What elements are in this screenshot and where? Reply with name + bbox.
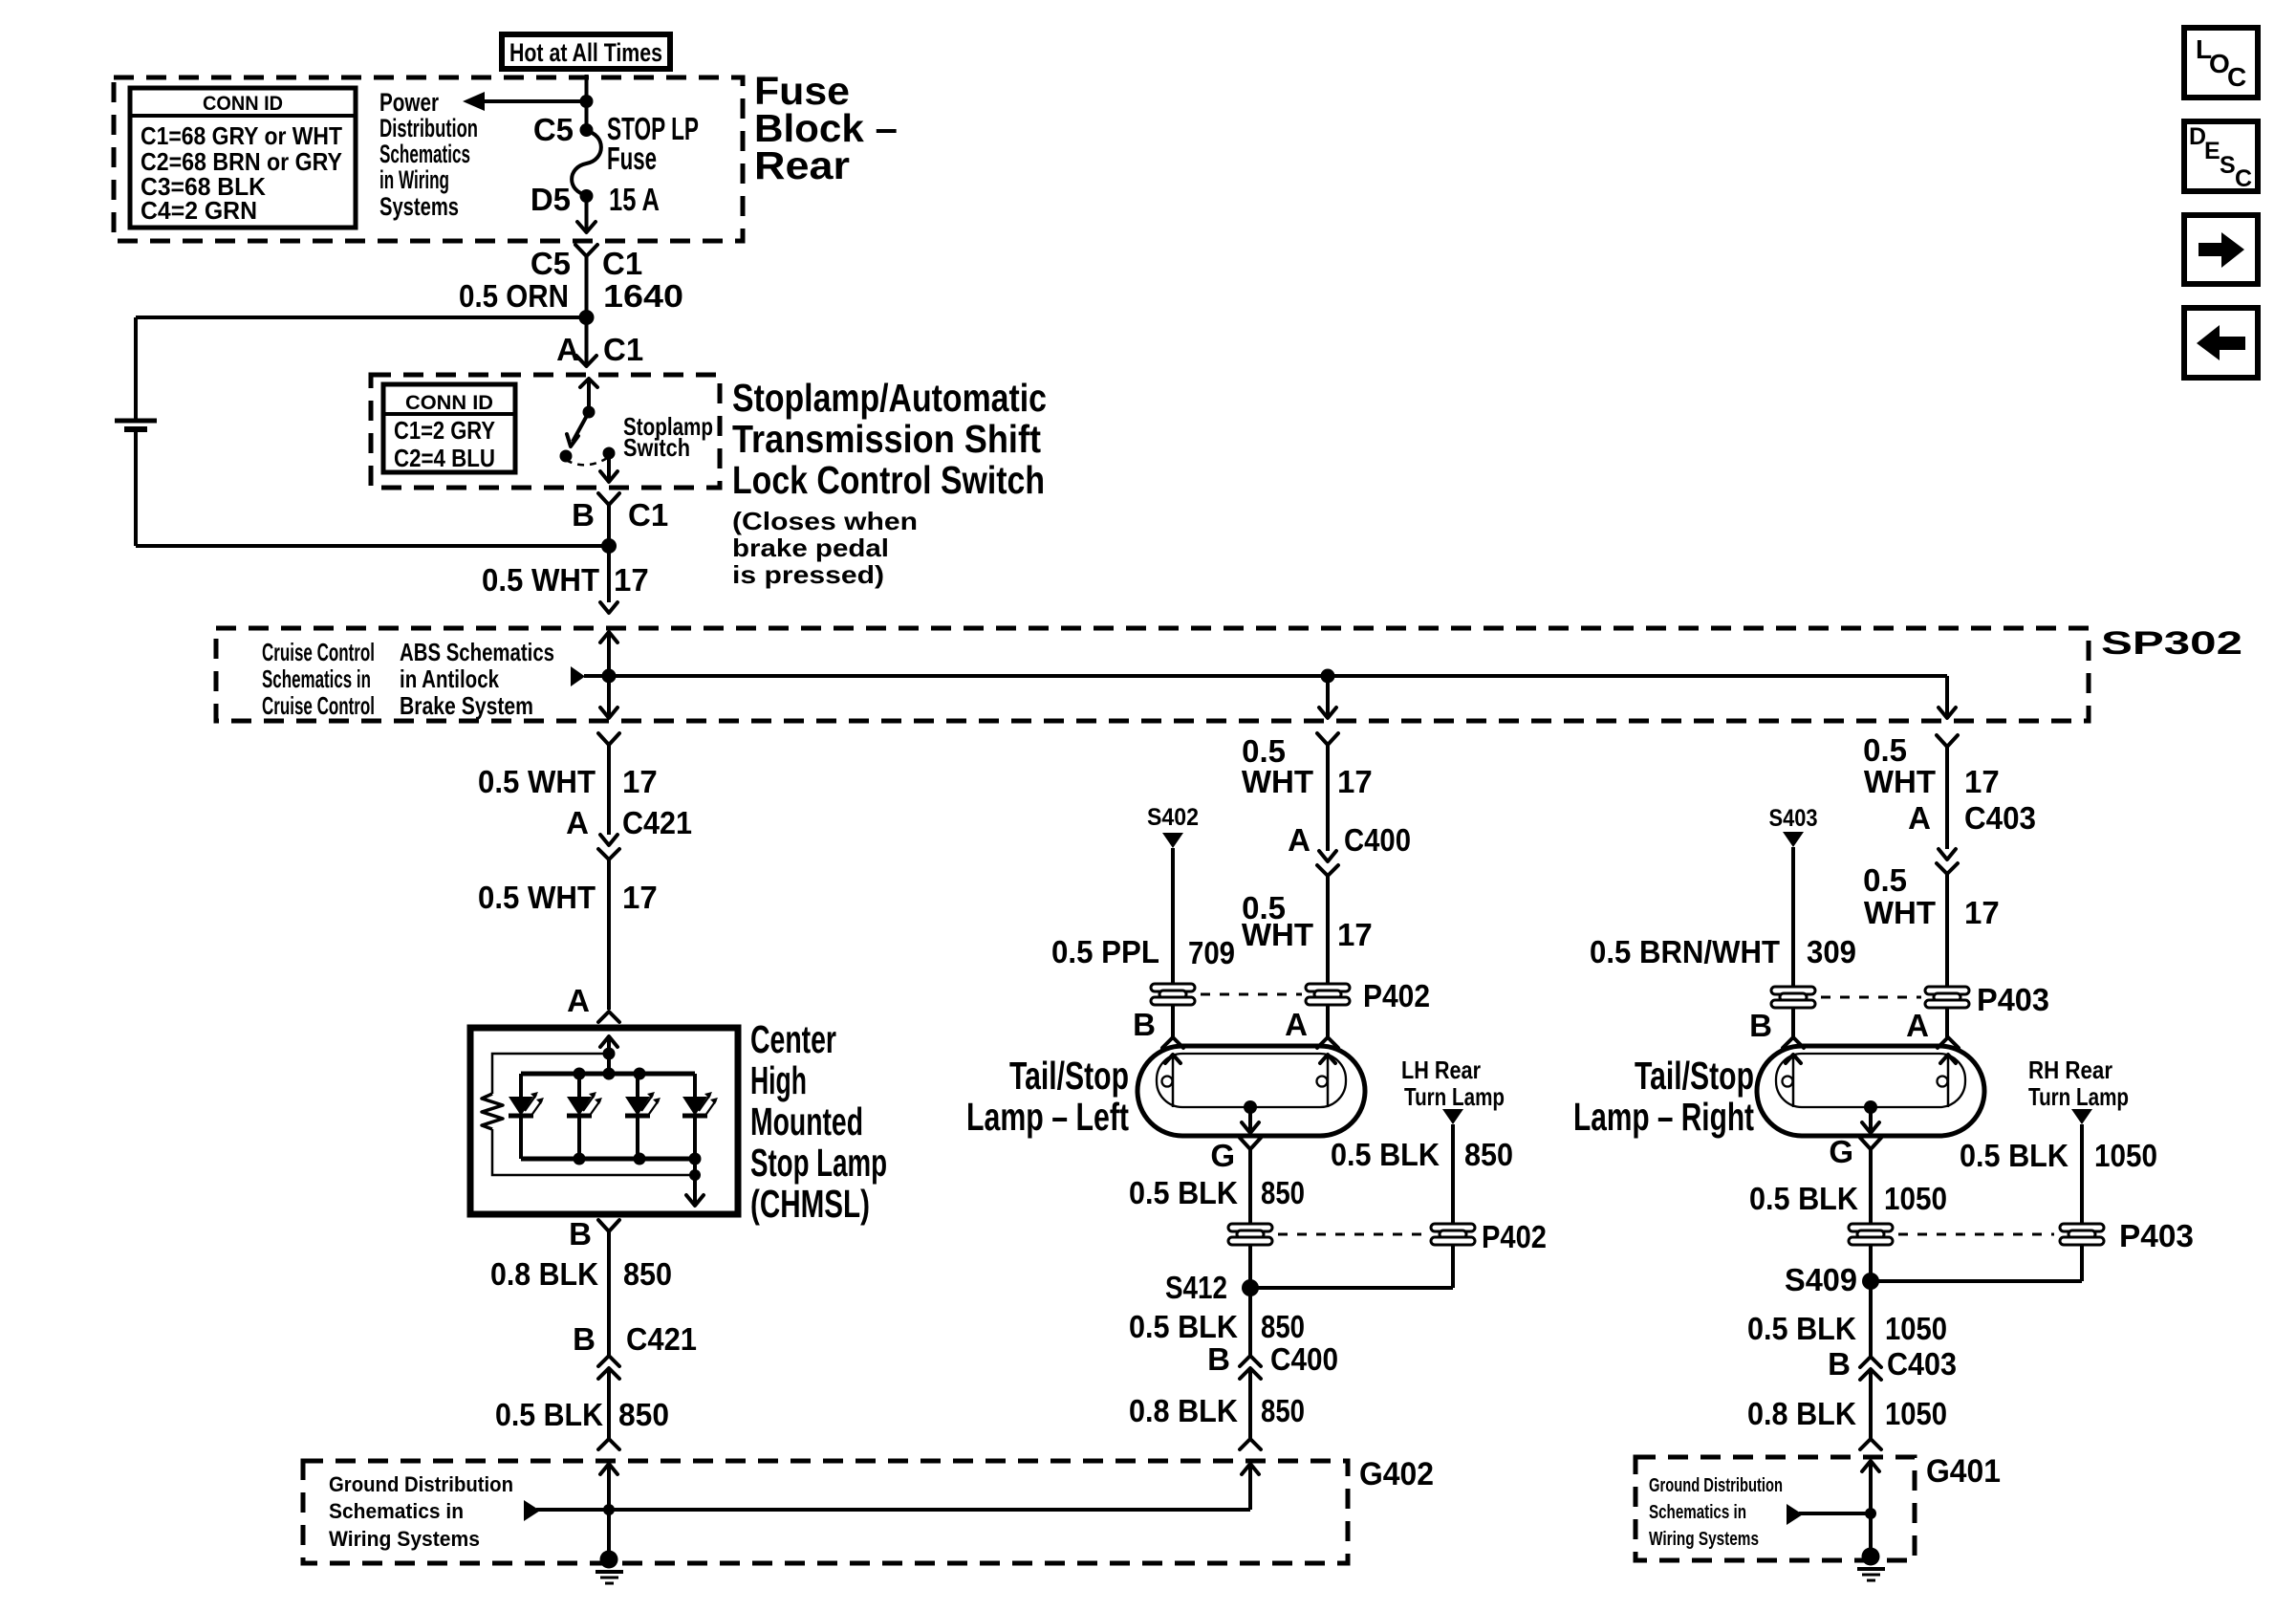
wire 0.8 BLK 1050 to G401	[1869, 1369, 1873, 1439]
LED cathode bus	[521, 1157, 695, 1162]
splice bus wire inside SP302	[571, 666, 1947, 686]
splice riser at 637 with arrows	[600, 631, 617, 718]
dashed grommet link P403 lower	[1898, 1233, 2054, 1236]
LH rear turn lamp feed (triangle)	[1442, 1109, 1463, 1224]
value label 0.5 BLK | 1050	[1749, 1181, 1947, 1216]
wire 0.5 BLK 850 to ground	[607, 1368, 611, 1439]
value label 0.5 PPL | 709	[1051, 934, 1235, 970]
svg-text:C1: C1	[602, 246, 642, 281]
label LH Rear Turn Lamp	[1401, 1056, 1505, 1111]
connector A/C1 arrow + chevron	[576, 356, 596, 366]
svg-text:C1: C1	[628, 497, 668, 533]
wire stubs into right lamp	[1793, 1008, 1947, 1037]
svg-text:17: 17	[1964, 764, 2000, 799]
svg-text:Tail/Stop: Tail/Stop	[1009, 1054, 1129, 1098]
svg-text:A: A	[1908, 800, 1931, 836]
svg-text:17: 17	[1337, 917, 1373, 952]
svg-text:S: S	[2220, 152, 2236, 179]
svg-text:G402: G402	[1359, 1456, 1434, 1492]
pin label B | C1	[572, 497, 668, 533]
left ground riser with up arrow	[600, 1464, 617, 1558]
note Power Distribution Schematics in Wiring Systems	[379, 88, 478, 221]
LED D1	[509, 1074, 544, 1159]
junction dot entry	[603, 1048, 616, 1060]
resistor bypass loop (thin)	[492, 1054, 695, 1175]
svg-text:0.5 WHT: 0.5 WHT	[482, 562, 599, 598]
value label 0.8 BLK | 850	[1129, 1393, 1305, 1428]
connector B chevron below CHMSL	[598, 1220, 619, 1231]
svg-text:C: C	[2235, 165, 2252, 192]
svg-text:is pressed): is pressed)	[732, 560, 884, 589]
wire 0.8 BLK 850	[607, 1231, 611, 1356]
wire: fuse output with arrow to box edge	[577, 196, 596, 232]
svg-text:C5: C5	[533, 112, 574, 147]
svg-text:in Antilock: in Antilock	[400, 664, 499, 693]
value label 0.5 BLK | 850	[495, 1397, 669, 1432]
wire: top leg of cruise-control loop	[136, 316, 587, 319]
junction dot SP302 left	[602, 669, 617, 684]
grommet P402 (main wire)	[1306, 984, 1350, 1005]
svg-text:Power: Power	[379, 88, 439, 117]
svg-text:0.5 PPL: 0.5 PPL	[1051, 934, 1159, 969]
svg-text:0.5 BRN/WHT: 0.5 BRN/WHT	[1590, 934, 1780, 969]
wire 0.5 WHT 17 (right, above C403)	[1945, 747, 1949, 849]
value label 0.5 / WHT | 17	[1863, 862, 2000, 930]
junction node to cruise loop	[579, 310, 595, 325]
CHMSL exit wire with down arrow	[686, 1159, 704, 1206]
svg-text:Stop Lamp: Stop Lamp	[750, 1141, 887, 1185]
dashed grommet link P403	[1821, 996, 1921, 999]
pin label G chevron below lamp	[1240, 1138, 1261, 1149]
wire 0.5 BLK 1050 (right lamp ground)	[1869, 1149, 1873, 1224]
ground symbol G402	[596, 1551, 623, 1584]
chevron at CHMSL pin A	[598, 1012, 619, 1022]
DESC icon box	[2184, 121, 2258, 192]
svg-text:Wiring Systems: Wiring Systems	[1649, 1529, 1759, 1550]
svg-text:0.5: 0.5	[1863, 732, 1907, 768]
svg-text:Systems: Systems	[379, 192, 459, 221]
forward arrow icon box	[2184, 215, 2258, 284]
svg-text:G: G	[1829, 1134, 1853, 1169]
dashed grommet link P402	[1201, 993, 1302, 996]
svg-text:Fuse: Fuse	[607, 141, 657, 176]
value label 0.5 BLK | 850	[1129, 1175, 1305, 1210]
filament (left pin B)	[1162, 1054, 1181, 1107]
svg-text:0.8 BLK: 0.8 BLK	[1747, 1396, 1856, 1431]
SP302 dashed enclosure	[216, 628, 2089, 721]
svg-text:B: B	[1207, 1341, 1230, 1377]
svg-text:Lamp – Right: Lamp – Right	[1573, 1095, 1754, 1139]
svg-text:17: 17	[614, 562, 649, 598]
svg-text:Transmission Shift: Transmission Shift	[732, 417, 1041, 461]
connector B/C1 chevron	[598, 493, 619, 505]
middle branch ground riser into G402	[1242, 1464, 1259, 1510]
splice drop right	[1939, 676, 1956, 718]
svg-text:1050: 1050	[2094, 1138, 2157, 1173]
grommet P403 lower (RH turn lamp wire)	[2060, 1224, 2104, 1245]
splice S402	[1147, 804, 1199, 985]
value label 0.5 BLK | 850 (below S412)	[1129, 1309, 1305, 1344]
svg-text:C403: C403	[1964, 800, 2036, 836]
svg-text:P402: P402	[1363, 978, 1430, 1013]
svg-text:E: E	[2204, 138, 2220, 164]
pin label A | C403	[1908, 800, 2036, 836]
svg-text:WHT: WHT	[1864, 764, 1936, 799]
filament (right pin B)	[1783, 1054, 1802, 1107]
svg-text:1050: 1050	[1885, 1311, 1947, 1346]
battery symbol (voltage source in loop)	[115, 317, 157, 546]
svg-text:Wiring Systems: Wiring Systems	[329, 1527, 480, 1551]
connector C421 arrow + chevron	[598, 835, 619, 860]
wire: arrow to power distribution (left)	[463, 92, 587, 111]
svg-text:Mounted: Mounted	[750, 1099, 863, 1143]
grommet P402 (S402 wire)	[1151, 984, 1195, 1005]
svg-text:C400: C400	[1270, 1341, 1338, 1377]
svg-text:High: High	[750, 1058, 807, 1102]
wire 0.8 BLK 850 to G402	[1248, 1368, 1252, 1439]
svg-text:B: B	[573, 1321, 596, 1357]
LED anode bus	[521, 1072, 695, 1077]
svg-text:Turn Lamp: Turn Lamp	[2028, 1082, 2129, 1111]
svg-text:C1=2 GRY: C1=2 GRY	[394, 416, 495, 445]
svg-text:D5: D5	[531, 182, 571, 217]
fuse block dashed enclosure	[114, 77, 743, 241]
svg-text:C: C	[2227, 62, 2246, 92]
svg-text:C1=68 GRY or WHT: C1=68 GRY or WHT	[141, 121, 342, 150]
pin label A | C421	[566, 805, 692, 840]
grommet P403 lower (right lamp ground wire)	[1849, 1224, 1893, 1245]
value label 0.5 WHT | 17	[482, 562, 649, 598]
svg-text:C403: C403	[1887, 1346, 1957, 1382]
svg-text:LH Rear: LH Rear	[1401, 1056, 1481, 1084]
svg-text:A: A	[1906, 1008, 1929, 1043]
value label 0.8 BLK | 850	[490, 1256, 672, 1292]
value label 0.5 / WHT | 17	[1863, 732, 2000, 799]
svg-text:0.8 BLK: 0.8 BLK	[1129, 1393, 1238, 1428]
svg-text:RH Rear: RH Rear	[2028, 1056, 2112, 1084]
chevrons at right lamp pins	[1783, 1037, 1959, 1048]
pin label C5 | C1	[531, 246, 642, 281]
connector C421 double chevron	[598, 1356, 619, 1379]
svg-text:709: 709	[1188, 935, 1235, 970]
wire RH turn-lamp ground into S409	[1871, 1245, 2082, 1281]
svg-text:G: G	[1210, 1138, 1235, 1173]
LED D2	[567, 1074, 602, 1159]
svg-text:850: 850	[1261, 1175, 1305, 1210]
G401 dashed enclosure	[1635, 1457, 1915, 1560]
label Center High Mounted Stop Lamp (CHMSL)	[750, 1017, 887, 1226]
connector C400 double chevron	[1240, 1356, 1261, 1379]
svg-text:SP302: SP302	[2101, 625, 2242, 662]
svg-text:0.5 WHT: 0.5 WHT	[478, 764, 596, 799]
svg-text:S412: S412	[1165, 1270, 1227, 1305]
svg-text:Lamp – Left: Lamp – Left	[966, 1095, 1129, 1139]
svg-text:Ground Distribution: Ground Distribution	[1649, 1475, 1783, 1496]
label Tail/Stop Lamp - Left	[966, 1054, 1129, 1139]
wire 0.5 ORN 1640	[585, 256, 589, 365]
svg-text:A: A	[1285, 1007, 1308, 1042]
svg-text:P403: P403	[1977, 982, 2049, 1017]
pin label A | C400	[1288, 822, 1411, 858]
svg-text:C4=2 GRN: C4=2 GRN	[141, 196, 257, 225]
chevron below SP302 right	[1937, 735, 1958, 747]
svg-text:brake pedal: brake pedal	[732, 533, 889, 562]
svg-text:0.5 BLK: 0.5 BLK	[1749, 1181, 1858, 1216]
connector C403 double chevron	[1860, 1357, 1881, 1380]
LED D3	[625, 1074, 661, 1159]
pin label B | C421	[573, 1321, 697, 1357]
svg-text:Schematics in: Schematics in	[1649, 1502, 1746, 1523]
svg-text:Distribution: Distribution	[379, 114, 478, 142]
svg-text:P403: P403	[2119, 1218, 2194, 1253]
chevron above G401	[1860, 1439, 1881, 1449]
svg-text:B: B	[1828, 1346, 1851, 1382]
svg-text:S409: S409	[1785, 1262, 1857, 1297]
svg-text:Cruise Control: Cruise Control	[262, 691, 375, 720]
pin label A | C1	[556, 332, 643, 367]
svg-text:CONN ID: CONN ID	[203, 93, 283, 115]
wire turn-lamp ground into S412	[1250, 1245, 1453, 1288]
svg-text:850: 850	[623, 1256, 672, 1292]
svg-text:(Closes when: (Closes when	[732, 507, 918, 535]
note ABS Schematics in Antilock Brake System	[400, 638, 554, 720]
svg-text:B: B	[572, 497, 595, 533]
junction dot SP302 middle	[1321, 669, 1335, 684]
CHMSL entry wire with up arrow	[600, 1036, 617, 1074]
svg-text:Cruise Control: Cruise Control	[262, 638, 375, 666]
chevron below SP302 middle	[1317, 733, 1338, 745]
svg-text:WHT: WHT	[1242, 917, 1313, 952]
svg-text:Stoplamp/Automatic: Stoplamp/Automatic	[732, 376, 1047, 420]
svg-text:17: 17	[622, 764, 658, 799]
splice drop middle	[1319, 676, 1336, 718]
svg-text:S402: S402	[1147, 804, 1199, 831]
label "Hot at All Times"	[502, 34, 670, 69]
pin G chevron below right lamp	[1860, 1138, 1881, 1149]
fuse STOP LP 15 A	[572, 123, 601, 203]
Tail/Stop Lamp - Right bulb housing	[1757, 1046, 1984, 1136]
junction dot on G401 bus	[1865, 1508, 1876, 1519]
svg-text:0.5 BLK: 0.5 BLK	[495, 1397, 603, 1432]
value label 0.5 WHT | 17	[478, 880, 658, 915]
svg-text:1640: 1640	[603, 278, 683, 314]
wire 0.5 BLK 850 (lamp ground)	[1248, 1149, 1252, 1224]
ground distribution arrow wire (G401)	[1787, 1504, 1871, 1525]
note Ground Distribution Schematics in Wiring Systems	[329, 1472, 513, 1551]
chevrons at lamp pins	[1162, 1037, 1338, 1048]
label Stoplamp/Automatic Transmission Shift Lock Control Switch	[732, 376, 1047, 589]
label RH Rear Turn Lamp	[2028, 1056, 2129, 1111]
svg-text:in Wiring: in Wiring	[379, 165, 449, 194]
svg-text:A: A	[567, 983, 590, 1018]
grommet P402 lower (turn lamp wire)	[1431, 1224, 1475, 1245]
label Tail/Stop Lamp - Right	[1573, 1054, 1754, 1139]
wire 0.5 WHT 17 (middle, below C400)	[1326, 876, 1330, 985]
value label 0.5 BLK | 1050 (turn lamp)	[1960, 1138, 2157, 1173]
junction at fuse feed	[580, 95, 594, 108]
svg-text:Rear: Rear	[754, 143, 850, 187]
svg-text:B: B	[1133, 1007, 1156, 1042]
svg-text:C2=4 BLU: C2=4 BLU	[394, 444, 495, 472]
chevron above G402	[598, 1439, 619, 1449]
svg-text:WHT: WHT	[1242, 764, 1313, 799]
svg-text:A: A	[556, 332, 579, 367]
svg-text:0.5 BLK: 0.5 BLK	[1960, 1138, 2069, 1173]
svg-text:Brake System: Brake System	[400, 691, 533, 720]
svg-text:17: 17	[1964, 895, 2000, 930]
wire 0.5 WHT 17 (middle, above C400)	[1326, 745, 1330, 851]
right ground riser with up arrow	[1862, 1461, 1879, 1556]
connector C400 arrow + chevron	[1317, 851, 1338, 876]
value label 0.5 BLK | 1050 (below S409)	[1747, 1311, 1947, 1346]
svg-text:A: A	[1288, 822, 1310, 858]
junction dot on ground bus	[603, 1504, 615, 1515]
svg-text:B: B	[1749, 1008, 1772, 1043]
svg-text:Schematics in: Schematics in	[262, 664, 371, 693]
splice S409	[1785, 1262, 1879, 1297]
pin label B | C400	[1207, 1341, 1338, 1377]
junction dots on cathode bus	[574, 1153, 586, 1165]
svg-text:0.5 BLK: 0.5 BLK	[1129, 1175, 1238, 1210]
note Cruise Control Schematics in Cruise Control	[262, 638, 375, 720]
wire arrow into SP302	[600, 602, 617, 613]
svg-text:C5: C5	[531, 246, 571, 281]
svg-text:S403: S403	[1769, 805, 1818, 832]
svg-text:Ground Distribution: Ground Distribution	[329, 1472, 513, 1496]
value label 0.5 / WHT | 17	[1242, 733, 1373, 799]
right lamp common node	[1862, 1100, 1879, 1133]
lamp common node	[1242, 1100, 1259, 1133]
svg-text:0.5 BLK: 0.5 BLK	[1331, 1137, 1440, 1172]
grommet P403 (S403 wire)	[1771, 987, 1815, 1008]
svg-text:C421: C421	[622, 805, 692, 840]
svg-text:B: B	[569, 1216, 592, 1252]
ground symbol G401	[1857, 1548, 1885, 1581]
G402 dashed enclosure	[303, 1461, 1348, 1563]
svg-text:G401: G401	[1926, 1453, 2001, 1490]
svg-text:850: 850	[1261, 1309, 1305, 1344]
note Ground Distribution Schematics in Wiring Systems (G401)	[1649, 1475, 1783, 1550]
value label 0.5 BRN/WHT | 309	[1590, 934, 1856, 969]
wire: feed from Hot at All Times into fuse	[585, 75, 589, 130]
switch dashed enclosure	[371, 375, 720, 488]
svg-text:CONN ID: CONN ID	[405, 392, 493, 414]
CONN ID table (fuse block)	[130, 88, 356, 228]
splice S412	[1165, 1270, 1259, 1305]
svg-text:WHT: WHT	[1864, 895, 1936, 930]
svg-text:C421: C421	[626, 1321, 697, 1357]
wire 0.5 WHT 17 below switch	[607, 505, 611, 602]
svg-text:1050: 1050	[1884, 1181, 1947, 1216]
ground distribution arrow wire	[524, 1500, 1250, 1521]
filament (right pin A)	[1938, 1054, 1957, 1107]
svg-text:0.8 BLK: 0.8 BLK	[490, 1256, 598, 1292]
wire from grommet to splice S409	[1869, 1245, 1873, 1356]
wire: bottom leg of cruise-control loop	[136, 544, 609, 548]
value label STOP LP Fuse 15 A	[607, 111, 699, 217]
svg-text:Hot at All Times: Hot at All Times	[509, 38, 662, 67]
svg-text:1050: 1050	[1885, 1396, 1947, 1431]
label Stoplamp Switch	[623, 412, 713, 462]
svg-text:0.5 WHT: 0.5 WHT	[478, 880, 596, 915]
svg-text:Turn Lamp: Turn Lamp	[1404, 1082, 1505, 1111]
junction node to cruise loop bottom	[601, 538, 617, 554]
grommet P402 lower (lamp ground wire)	[1228, 1224, 1272, 1245]
wire 0.5 WHT 17 (left, above C421)	[607, 745, 611, 835]
svg-text:Schematics: Schematics	[379, 140, 470, 168]
svg-text:17: 17	[1337, 764, 1373, 799]
chevron above G402 (middle)	[1240, 1439, 1261, 1449]
svg-text:A: A	[566, 805, 589, 840]
wire from grommet to splice S412	[1248, 1245, 1252, 1356]
svg-text:850: 850	[1261, 1393, 1305, 1428]
label Fuse Block - Rear	[754, 69, 898, 187]
svg-text:17: 17	[622, 880, 658, 915]
CHMSL housing box	[470, 1028, 738, 1214]
value label 0.5 WHT | 17	[478, 764, 658, 799]
svg-text:(CHMSL): (CHMSL)	[750, 1182, 870, 1226]
value label 0.5 ORN | 1640	[459, 278, 683, 314]
wire stubs into lamp	[1173, 1005, 1328, 1037]
svg-text:Lock Control Switch: Lock Control Switch	[732, 458, 1045, 502]
svg-text:Schematics in: Schematics in	[329, 1499, 464, 1523]
svg-text:0.5: 0.5	[1863, 862, 1907, 898]
LOC icon box	[2184, 28, 2258, 98]
wire 0.5 WHT 17 (left, below C421)	[607, 860, 611, 1010]
svg-text:P402: P402	[1482, 1219, 1547, 1254]
pin label B | C403	[1828, 1346, 1957, 1382]
CONN ID table (switch)	[383, 384, 515, 472]
value label 0.8 BLK | 1050	[1747, 1396, 1947, 1431]
stoplamp switch symbol	[560, 379, 618, 482]
junction dots on anode bus	[574, 1068, 586, 1080]
back arrow icon box	[2184, 308, 2258, 378]
splice S403	[1769, 805, 1818, 988]
grommet P403 (main wire)	[1925, 987, 1969, 1008]
svg-text:Tail/Stop: Tail/Stop	[1635, 1054, 1754, 1098]
svg-text:ABS Schematics: ABS Schematics	[400, 638, 554, 666]
connector C5/C1 chevron	[575, 245, 597, 256]
svg-text:850: 850	[618, 1397, 669, 1432]
filament (left pin A)	[1317, 1054, 1336, 1107]
Tail/Stop Lamp - Left bulb housing	[1137, 1046, 1365, 1136]
wire 0.5 WHT 17 (right, below C403)	[1945, 874, 1949, 988]
value label 0.5 BLK | 850 (turn lamp)	[1331, 1137, 1513, 1172]
LED D4	[682, 1074, 718, 1159]
svg-text:Switch: Switch	[623, 433, 690, 462]
junction dot bypass/exit	[689, 1169, 701, 1181]
svg-text:0.5 ORN: 0.5 ORN	[459, 278, 569, 314]
RH rear turn lamp feed (triangle)	[2071, 1109, 2092, 1224]
svg-text:309: 309	[1807, 934, 1856, 969]
svg-text:C1: C1	[603, 332, 643, 367]
svg-text:15 A: 15 A	[609, 182, 660, 217]
chevron below SP302 left	[598, 733, 619, 745]
dashed grommet link P402 lower	[1278, 1233, 1425, 1236]
svg-text:0.5 BLK: 0.5 BLK	[1747, 1311, 1856, 1346]
svg-text:Center: Center	[750, 1017, 836, 1061]
svg-text:850: 850	[1464, 1137, 1513, 1172]
svg-text:0.5 BLK: 0.5 BLK	[1129, 1309, 1238, 1344]
value label 0.5 / WHT | 17	[1242, 890, 1373, 952]
svg-text:C400: C400	[1344, 822, 1411, 858]
resistor R (CHMSL)	[482, 1094, 503, 1129]
connector C403 arrow + chevron	[1937, 849, 1958, 874]
